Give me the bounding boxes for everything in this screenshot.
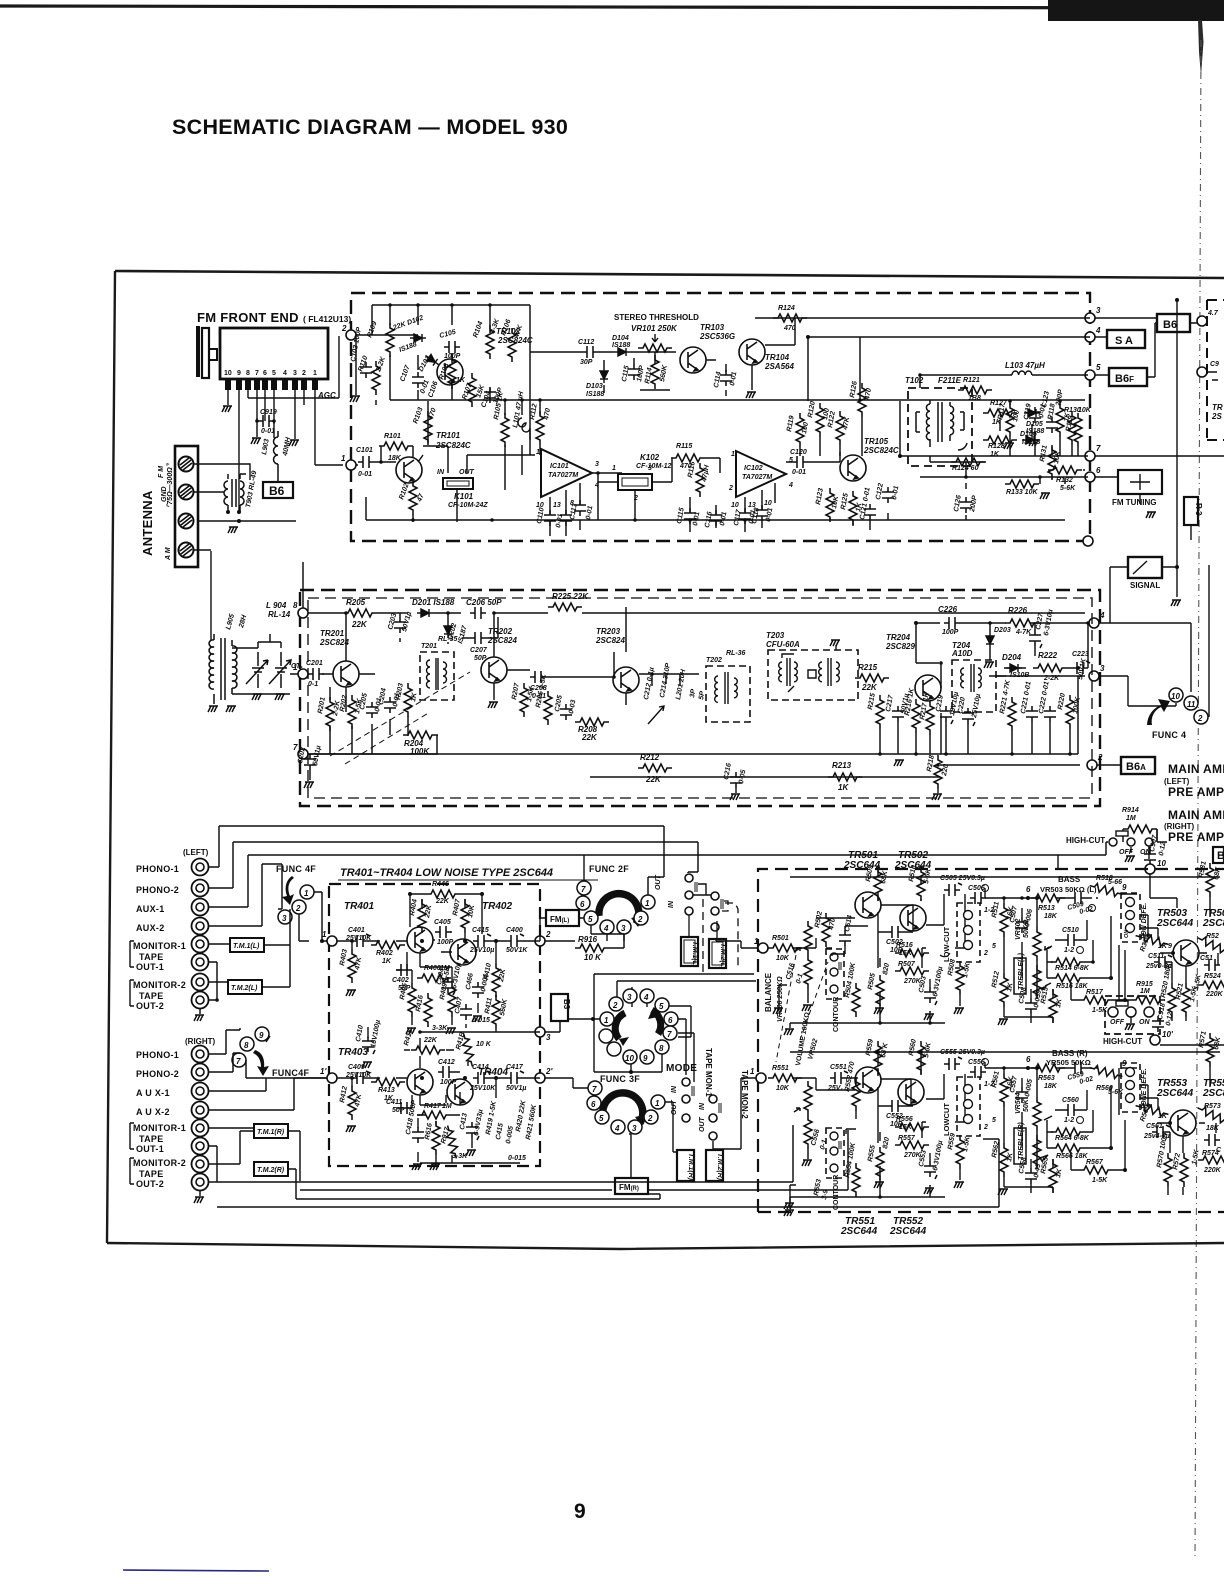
svg-text:MONITOR-1: MONITOR-1 (133, 1123, 186, 1133)
op-amp IC102 TA7027M (736, 451, 786, 497)
resistor R132 (1048, 466, 1082, 474)
svg-text:IC101: IC101 (550, 463, 569, 470)
resistor R567 1-5K (1079, 1166, 1113, 1174)
capacitor C204 (384, 697, 396, 713)
svg-text:560K: 560K (659, 364, 669, 383)
wire monitor jacks L (209, 944, 230, 1000)
svg-text:10K: 10K (776, 955, 790, 962)
capacitor C206 50P (470, 607, 486, 619)
node bottom (1083, 536, 1093, 546)
svg-text:C105: C105 (439, 329, 457, 340)
svg-text:6: 6 (1096, 466, 1101, 475)
svg-text:68K: 68K (1213, 866, 1222, 881)
CONTOUR dashed box L (826, 949, 844, 999)
transformer T201 RL-35 dashed (420, 652, 454, 700)
pins 10..1 (225, 379, 318, 390)
capacitor C202 (304, 754, 316, 770)
svg-text:R515: R515 (1040, 987, 1050, 1005)
svg-text:7: 7 (255, 370, 259, 377)
capacitor C207 50P (470, 632, 486, 644)
node 1' left (756, 1073, 766, 1083)
wire bass line R (985, 1062, 1028, 1068)
coil L101 47uH (518, 418, 530, 440)
svg-text:VR503 50KΩ (L): VR503 50KΩ (L) (1040, 885, 1097, 894)
svg-text:7: 7 (1096, 444, 1101, 453)
capacitor C115 (684, 508, 696, 524)
svg-text:1-5K: 1-5K (962, 961, 972, 978)
svg-text:HIGH-CUT: HIGH-CUT (1103, 1037, 1142, 1046)
resistor R413 1K (371, 1078, 405, 1086)
switch contact 2 (292, 900, 306, 914)
capacitor C223 (1072, 661, 1090, 674)
svg-text:R41B: R41B (455, 1031, 466, 1050)
svg-text:TR402: TR402 (482, 901, 512, 912)
node 8 (298, 608, 308, 618)
ground left jacks (199, 1009, 201, 1014)
svg-text:R524: R524 (1204, 973, 1221, 980)
svg-text:B3: B3 (562, 999, 571, 1010)
svg-text:C561: C561 (1146, 1123, 1163, 1130)
svg-text:D102: D102 (406, 315, 424, 327)
svg-text:5: 5 (992, 1117, 996, 1124)
svg-text:15K: 15K (899, 950, 913, 957)
svg-text:47: 47 (416, 492, 426, 504)
wires nodes right mpx (940, 623, 1099, 765)
svg-text:0-12: 0-12 (1165, 1011, 1174, 1026)
svg-text:C560: C560 (1062, 1097, 1079, 1104)
resistor R507 270K (895, 967, 929, 975)
box T.M.1(L) (230, 938, 264, 952)
svg-text:MAIN AMP: MAIN AMP (1168, 808, 1224, 822)
svg-text:C202: C202 (297, 747, 307, 765)
capacitor C560 (1063, 1104, 1079, 1116)
capacitor C918 (1152, 1016, 1164, 1032)
wires TR553 (1119, 1068, 1183, 1195)
transformer T903 RL-49 (224, 474, 246, 512)
resistor R512 1K (1000, 973, 1008, 1007)
svg-text:2SC644: 2SC644 (843, 860, 881, 871)
svg-text:C206 50P: C206 50P (466, 598, 502, 607)
diode D104 IS188 (614, 348, 630, 356)
svg-text:OFF: OFF (1110, 1019, 1125, 1026)
svg-text:C221 0-01: C221 0-01 (1020, 681, 1033, 715)
svg-text:TR201: TR201 (320, 629, 345, 638)
resistor R404 22K (418, 899, 426, 933)
resistor R574 truncated (1198, 1156, 1224, 1164)
wire FM(L) left (540, 918, 546, 941)
resistor R418 10K (460, 1033, 477, 1068)
wire monitor jacks R (209, 1128, 254, 1182)
svg-text:R125: R125 (840, 493, 850, 511)
svg-text:LOWCUT: LOWCUT (942, 1103, 951, 1136)
svg-text:C415: C415 (495, 1123, 505, 1141)
svg-text:R112: R112 (529, 403, 539, 420)
capacitor C201 (308, 668, 324, 680)
resistor R131 10K (1048, 445, 1056, 479)
signal meter (1128, 557, 1162, 578)
FUNC4F right rotor arrow (253, 1050, 269, 1076)
capacitor C407 0-015 (460, 1004, 472, 1020)
svg-text:R131: R131 (1039, 445, 1049, 463)
svg-text:1-5K: 1-5K (1191, 1148, 1201, 1165)
svg-text:1: 1 (322, 930, 327, 939)
svg-text:0-01: 0-01 (358, 471, 372, 478)
svg-text:R124: R124 (778, 305, 795, 312)
wire tape mon to amp node1 (716, 938, 758, 948)
capacitor C405 100P (435, 926, 451, 938)
svg-text:(LEFT): (LEFT) (183, 848, 209, 857)
svg-text:1K: 1K (1055, 997, 1064, 1008)
screw 75ohm GND (179, 514, 194, 529)
svg-text:0-01: 0-01 (555, 513, 564, 528)
capacitor C122 (882, 487, 894, 503)
svg-text:1: 1 (304, 889, 309, 898)
svg-text:1: 1 (341, 454, 346, 463)
box B6F (1109, 368, 1147, 386)
svg-text:D204: D204 (1002, 653, 1022, 662)
svg-text:R516 18K: R516 18K (1056, 983, 1088, 990)
svg-text:200P: 200P (969, 495, 979, 514)
FUNC2F contact 2 (634, 911, 648, 925)
svg-text:470: 470 (543, 408, 552, 422)
svg-text:R417: R417 (424, 1103, 442, 1110)
svg-text:6: 6 (263, 370, 267, 377)
resistor R124 470 top (773, 314, 807, 322)
svg-text:R914: R914 (1122, 807, 1139, 814)
svg-text:220K: 220K (1203, 1167, 1222, 1174)
diode D103 IS188 (600, 367, 608, 383)
svg-text:0-01: 0-01 (261, 428, 275, 435)
capacitor C553 (924, 1161, 937, 1179)
svg-text:1: 1 (645, 899, 650, 908)
dashed box right of fold (1207, 300, 1224, 440)
transistor TR202 (481, 657, 507, 683)
capacitor C123 200P (1046, 417, 1058, 433)
svg-text:PHONO-2: PHONO-2 (136, 885, 179, 895)
node 3 (535, 1027, 545, 1037)
svg-text:10: 10 (1171, 692, 1180, 701)
box T.M.2(L) vertical (709, 939, 726, 968)
svg-text:T201: T201 (421, 643, 437, 650)
LOW-CUT dashed box L (957, 903, 980, 962)
capacitor C414 (473, 1071, 491, 1084)
MPX dashed box outer (300, 590, 1100, 806)
svg-text:TR401: TR401 (344, 901, 374, 912)
svg-text:2: 2 (728, 485, 733, 492)
wire loop top 1 (209, 826, 664, 895)
svg-text:7: 7 (581, 885, 586, 894)
svg-text:C207: C207 (470, 647, 488, 654)
svg-text:6: 6 (591, 1100, 596, 1109)
svg-text:FUNC 3F: FUNC 3F (600, 1074, 640, 1084)
svg-text:2': 2' (545, 1067, 553, 1076)
svg-text:C411: C411 (386, 1099, 402, 1106)
capacitor C509 (1070, 892, 1086, 904)
svg-text:CT₁: CT₁ (291, 663, 303, 670)
svg-text:25V₁: 25V₁ (827, 1085, 843, 1092)
svg-text:R101: R101 (384, 433, 401, 440)
svg-text:C402: C402 (392, 977, 409, 984)
svg-text:C120: C120 (790, 449, 807, 456)
svg-text:3: 3 (1096, 306, 1101, 315)
capacitor C512 truncated (1204, 959, 1220, 971)
svg-text:C117: C117 (733, 508, 743, 526)
svg-text:R511: R511 (991, 901, 1001, 918)
svg-text:1K: 1K (838, 783, 849, 792)
caps under IC102 (690, 483, 775, 515)
svg-text:22K: 22K (424, 904, 433, 920)
resistor R412 47K (348, 1086, 356, 1120)
resistor R560b 5-6K (1089, 1064, 1124, 1081)
capacitor C502 10P (887, 926, 903, 938)
svg-text:B: B (1217, 850, 1224, 862)
coil L903 40MH (274, 431, 279, 482)
svg-text:IS187: IS187 (457, 624, 469, 645)
resistor R226 4-7K (1005, 619, 1039, 627)
transistor TR553 (1170, 1110, 1196, 1136)
svg-text:FM TUNING: FM TUNING (1112, 498, 1156, 507)
box T.M.2(L) (228, 980, 262, 994)
resistor R566 18K (1051, 1144, 1085, 1152)
svg-text:R559: R559 (865, 1039, 875, 1057)
resistor R565 1K (1049, 1159, 1057, 1193)
node 7 (298, 749, 308, 759)
LOW-CUT dashed box R (957, 1077, 980, 1136)
svg-text:0-1: 0-1 (308, 681, 318, 688)
svg-text:10K: 10K (831, 495, 840, 510)
svg-text:TAPE: TAPE (139, 991, 164, 1001)
resistor R203 1K (404, 683, 412, 717)
resistor R126 470 (858, 383, 866, 417)
switch contact 3 (278, 910, 292, 924)
svg-text:C505 25V0.3µ: C505 25V0.3µ (940, 875, 985, 882)
svg-text:D203: D203 (994, 627, 1011, 634)
svg-text:T.M.2(L): T.M.2(L) (719, 943, 726, 970)
capacitor C406 0-006 (472, 982, 484, 998)
svg-text:FUNC 2F: FUNC 2F (589, 864, 629, 874)
svg-text:0-1: 0-1 (819, 1139, 828, 1151)
resistor R114 560K (651, 355, 659, 389)
ganged dashed line balance-volume (776, 955, 828, 1062)
svg-text:R121: R121 (963, 377, 980, 384)
svg-text:R203: R203 (395, 683, 405, 701)
svg-text:FM FRONT END: FM FRONT END (197, 310, 299, 325)
box B truncated (1213, 847, 1224, 863)
resistor R411 560K (492, 995, 500, 1029)
svg-text:R915: R915 (1136, 981, 1153, 988)
transformer T204 A10D dashed (952, 660, 996, 712)
transistor TR201 (333, 661, 359, 687)
svg-text:D103: D103 (586, 383, 603, 390)
resistor R314 1K (1135, 932, 1170, 949)
capacitor C216 (730, 772, 742, 788)
svg-text:1M: 1M (1140, 988, 1150, 995)
treble pot (1033, 965, 1041, 999)
svg-text:22K: 22K (581, 733, 598, 742)
small tuning arrow (648, 706, 664, 724)
svg-text:VR504: VR504 (1015, 1092, 1022, 1114)
svg-text:0-01: 0-01 (891, 485, 900, 500)
svg-text:R216 1K: R216 1K (904, 687, 916, 716)
wires left cluster (356, 305, 530, 455)
resistor R103 470 (424, 411, 432, 445)
FUNC2F contact 1 (641, 895, 655, 909)
svg-text:R127: R127 (990, 400, 1008, 407)
svg-text:1: 1 (750, 1067, 755, 1076)
node 3 (1085, 313, 1095, 323)
capacitor C409 (352, 1071, 370, 1084)
svg-text:6-3V100µ: 6-3V100µ (932, 1140, 944, 1171)
svg-text:2SC824: 2SC824 (595, 636, 625, 645)
resistor R566 15K (895, 1123, 929, 1131)
svg-text:ANTENNA: ANTENNA (140, 490, 155, 556)
svg-text:10: 10 (1157, 859, 1166, 868)
volume pot (804, 1081, 812, 1115)
capacitor C514 (839, 930, 851, 946)
resistor R102 47 (409, 481, 417, 515)
box B6 (1157, 314, 1190, 332)
svg-text:PRE AMP: PRE AMP (1168, 830, 1224, 844)
resistor R561 (1000, 1073, 1008, 1107)
diode D105 (1024, 409, 1040, 417)
svg-text:2SA564: 2SA564 (764, 362, 794, 371)
svg-text:C400: C400 (506, 927, 523, 934)
svg-text:1K: 1K (410, 691, 419, 702)
screw AM (179, 543, 194, 558)
diode D204 (1006, 664, 1022, 672)
resistor R551 10K (768, 1074, 802, 1082)
svg-text:470: 470 (864, 388, 873, 402)
svg-text:C401: C401 (348, 927, 365, 934)
capacitor C507 (1016, 917, 1028, 933)
svg-text:560K: 560K (499, 998, 509, 1017)
svg-text:0-006: 0-006 (1024, 908, 1034, 927)
svg-text:BASS (R): BASS (R) (1052, 1049, 1088, 1058)
node 1' (327, 1073, 337, 1083)
svg-text:R207: R207 (511, 682, 521, 701)
wires TR101 area (356, 401, 535, 522)
node 4 (1085, 332, 1095, 342)
svg-text:1: 1 (536, 449, 540, 456)
svg-text:R616: R616 (424, 1123, 434, 1141)
svg-text:2: 2 (302, 370, 306, 377)
svg-text:TAPE: TAPE (139, 952, 164, 962)
svg-text:3: 3 (595, 461, 599, 468)
svg-text:TR104: TR104 (765, 353, 790, 362)
svg-text:R115: R115 (676, 443, 692, 450)
op-amp IC101 TA7027M (541, 449, 592, 497)
svg-text:OUT: OUT (459, 469, 475, 476)
box T.M.1(L) vertical (681, 937, 698, 966)
svg-text:C114: C114 (713, 371, 723, 388)
svg-text:R505: R505 (867, 973, 877, 991)
capacitor C551 (830, 1071, 848, 1084)
svg-text:ON: ON (1124, 929, 1130, 938)
cap C203 (394, 617, 406, 633)
TAPE MON switch group 1 (685, 874, 693, 882)
capacitor C510 (1063, 934, 1079, 946)
svg-text:R123: R123 (815, 488, 825, 506)
svg-text:TAPE: TAPE (139, 1134, 164, 1144)
svg-text:F M: F M (158, 466, 165, 478)
svg-text:R512: R512 (991, 971, 1001, 989)
svg-text:R407: R407 (452, 898, 462, 917)
capacitor C121 (864, 504, 876, 520)
capacitor C412 100P (438, 1066, 454, 1078)
svg-text:6-3V10µ: 6-3V10µ (451, 962, 463, 989)
svg-text:R403: R403 (339, 949, 349, 967)
wire bass line L (985, 888, 1028, 898)
capacitor C411 50P (396, 1102, 412, 1114)
svg-text:R560: R560 (908, 1039, 918, 1057)
svg-text:T.M.1(L): T.M.1(L) (233, 943, 260, 950)
svg-text:C115: C115 (621, 365, 631, 382)
resistor R207 (520, 683, 528, 717)
transistor TR551 (855, 1067, 881, 1093)
capacitor C556b (970, 1066, 986, 1078)
svg-text:R567: R567 (1086, 1159, 1104, 1166)
svg-text:0-005: 0-005 (505, 1125, 515, 1144)
bass pot VR502 (1033, 927, 1041, 961)
svg-text:50V1µ: 50V1µ (401, 611, 413, 633)
wires TR501 cluster (790, 868, 1220, 1012)
svg-text:C417: C417 (506, 1064, 524, 1071)
wires TR551 cluster (790, 1052, 1220, 1186)
svg-text:R581: R581 (1198, 861, 1208, 879)
resistor R516 15K (895, 949, 929, 957)
svg-text:R110: R110 (357, 355, 369, 373)
svg-text:22K: 22K (861, 683, 878, 692)
svg-text:10K: 10K (1053, 450, 1062, 465)
node 1 (298, 669, 308, 679)
wire loop bottom A (217, 1125, 793, 1182)
capacitor C107 (412, 372, 424, 388)
svg-text:7: 7 (592, 1085, 597, 1094)
ground under T903 (228, 527, 238, 533)
svg-text:R416: R416 (415, 995, 425, 1013)
svg-text:IS188: IS188 (612, 342, 630, 349)
svg-text:PHONO-1: PHONO-1 (136, 1050, 179, 1060)
pot VR101 (638, 344, 672, 352)
svg-text:0-005: 0-005 (1024, 1078, 1034, 1097)
svg-text:9: 9 (237, 370, 241, 377)
svg-text:T203: T203 (766, 631, 785, 640)
svg-text:470: 470 (783, 325, 796, 332)
svg-text:TR203: TR203 (596, 627, 621, 636)
svg-text:6: 6 (1026, 885, 1031, 894)
svg-text:1K: 1K (1158, 943, 1168, 950)
svg-text:R513: R513 (1038, 905, 1055, 912)
svg-text:C101: C101 (356, 447, 373, 454)
resistor R508 1-5K (956, 961, 964, 995)
switch contact 2 (1194, 710, 1208, 724)
resistor R128 1K (983, 436, 1017, 444)
transformer T202 RL-36 dashed (706, 666, 750, 722)
resistor R562 1K (1000, 1143, 1008, 1177)
FM front end module FL412U13 (220, 328, 328, 379)
resistor R402 1K (371, 941, 405, 949)
svg-text:4: 4 (643, 993, 649, 1002)
resistor R502 470 (822, 913, 830, 947)
FM tuning meter (1118, 470, 1162, 494)
svg-text:1M: 1M (1126, 815, 1136, 822)
resistor R415 22K (411, 1046, 445, 1054)
TONE DEFE dashed box L (1121, 893, 1140, 942)
resistor R513 18K (1031, 894, 1065, 902)
resistor R109 22K (386, 323, 394, 357)
resistor R572 (1180, 1153, 1188, 1187)
wire contact2 down (299, 914, 309, 941)
